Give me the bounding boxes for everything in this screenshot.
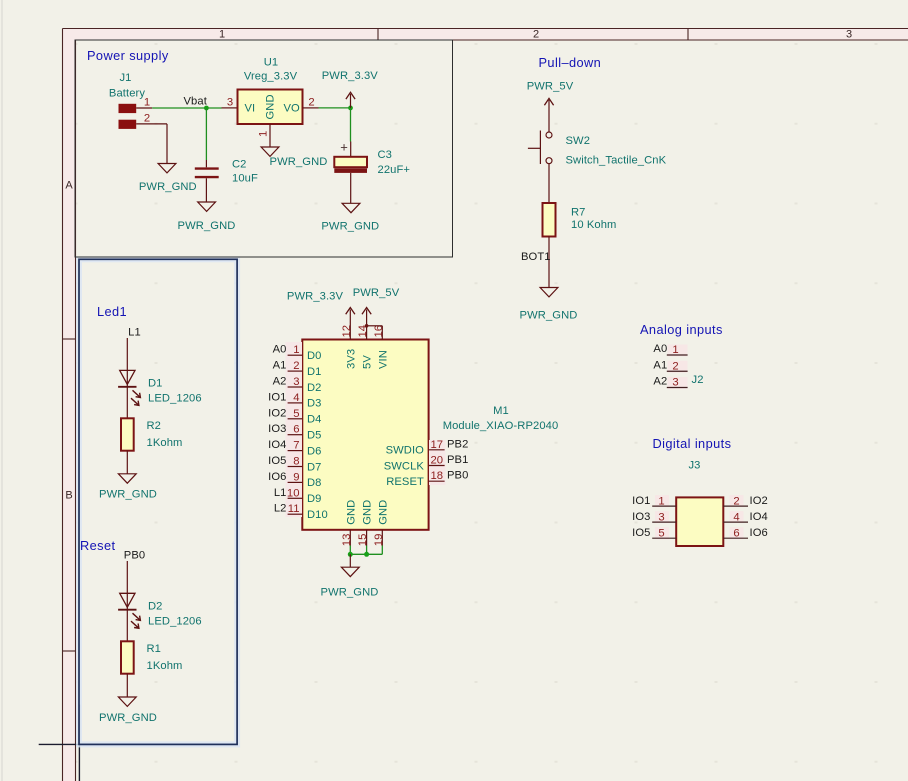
svg-text:D4: D4 [307, 414, 322, 426]
svg-text:IO5: IO5 [268, 455, 286, 467]
svg-text:SWDIO: SWDIO [386, 445, 425, 457]
svg-text:LED_1206: LED_1206 [148, 392, 202, 404]
svg-text:J2: J2 [692, 374, 704, 386]
svg-text:3: 3 [293, 376, 299, 388]
svg-text:D7: D7 [307, 461, 322, 473]
svg-text:3V3: 3V3 [345, 349, 357, 369]
svg-text:M1: M1 [493, 405, 509, 417]
svg-text:GND: GND [345, 500, 357, 525]
svg-text:D10: D10 [307, 509, 328, 521]
svg-text:3: 3 [846, 29, 852, 41]
svg-text:3: 3 [227, 97, 233, 109]
svg-text:+: + [340, 140, 348, 155]
svg-text:1: 1 [258, 131, 270, 137]
svg-text:A0: A0 [653, 343, 667, 355]
svg-text:A: A [65, 180, 73, 192]
svg-text:PWR_GND: PWR_GND [321, 587, 379, 599]
svg-text:L1: L1 [274, 487, 287, 499]
svg-text:2: 2 [533, 29, 539, 41]
svg-text:8: 8 [293, 456, 299, 468]
svg-text:IO2: IO2 [750, 495, 768, 507]
svg-text:RESET: RESET [386, 476, 424, 488]
svg-text:C3: C3 [378, 149, 393, 161]
svg-text:16: 16 [373, 325, 385, 338]
svg-text:SWCLK: SWCLK [384, 460, 425, 472]
svg-text:Vbat: Vbat [184, 96, 208, 108]
svg-text:U1: U1 [264, 57, 279, 69]
svg-text:2: 2 [144, 113, 150, 125]
svg-text:Analog inputs: Analog inputs [640, 322, 723, 337]
svg-text:D5: D5 [307, 430, 322, 442]
svg-text:2: 2 [308, 97, 314, 109]
svg-text:IO4: IO4 [268, 439, 286, 451]
svg-text:PB2: PB2 [447, 438, 468, 450]
svg-text:2: 2 [672, 360, 678, 372]
svg-text:A2: A2 [653, 376, 667, 388]
svg-text:PWR_5V: PWR_5V [353, 287, 400, 299]
svg-text:22uF+: 22uF+ [378, 164, 411, 176]
svg-text:5: 5 [658, 528, 664, 540]
svg-text:10: 10 [287, 487, 300, 499]
svg-text:SW2: SW2 [566, 135, 591, 147]
svg-text:1: 1 [219, 29, 225, 41]
svg-text:PWR_3.3V: PWR_3.3V [322, 70, 379, 82]
svg-text:1Kohm: 1Kohm [147, 437, 183, 449]
svg-text:D3: D3 [307, 398, 322, 410]
svg-text:1Kohm: 1Kohm [147, 660, 183, 672]
svg-text:GND: GND [362, 500, 374, 525]
svg-text:Power supply: Power supply [87, 48, 169, 63]
svg-text:PWR_GND: PWR_GND [99, 712, 157, 724]
svg-text:Vreg_3.3V: Vreg_3.3V [244, 71, 298, 83]
svg-text:VIN: VIN [377, 350, 389, 369]
svg-text:R1: R1 [147, 643, 162, 655]
svg-text:IO3: IO3 [268, 423, 286, 435]
svg-text:D8: D8 [307, 477, 322, 489]
svg-text:IO6: IO6 [750, 527, 768, 539]
svg-text:Battery: Battery [109, 88, 145, 100]
svg-text:1: 1 [672, 344, 678, 356]
svg-text:BOT1: BOT1 [521, 251, 551, 263]
svg-text:IO4: IO4 [750, 511, 768, 523]
svg-text:PWR_GND: PWR_GND [178, 220, 236, 232]
svg-text:PWR_3.3V: PWR_3.3V [287, 291, 344, 303]
svg-text:A1: A1 [273, 360, 287, 372]
svg-text:A0: A0 [273, 344, 287, 356]
svg-text:4: 4 [293, 392, 299, 404]
svg-text:D2: D2 [307, 382, 322, 394]
svg-text:LED_1206: LED_1206 [148, 615, 202, 627]
svg-text:D6: D6 [307, 445, 322, 457]
svg-text:5V: 5V [362, 355, 374, 369]
svg-text:2: 2 [293, 360, 299, 372]
svg-text:4: 4 [733, 512, 739, 524]
svg-text:IO1: IO1 [632, 495, 650, 507]
svg-text:Switch_Tactile_CnK: Switch_Tactile_CnK [566, 155, 667, 167]
svg-text:9: 9 [293, 471, 299, 483]
svg-text:D1: D1 [148, 377, 163, 389]
svg-text:R2: R2 [147, 420, 162, 432]
svg-text:2: 2 [733, 496, 739, 508]
svg-text:5: 5 [293, 408, 299, 420]
svg-text:PWR_GND: PWR_GND [99, 489, 157, 501]
svg-text:J1: J1 [119, 72, 131, 84]
svg-text:L2: L2 [274, 503, 287, 515]
svg-text:17: 17 [431, 439, 444, 451]
svg-text:18: 18 [431, 470, 444, 482]
svg-text:6: 6 [293, 424, 299, 436]
svg-text:PWR_GND: PWR_GND [139, 181, 197, 193]
svg-text:15: 15 [357, 534, 369, 547]
svg-text:PWR_GND: PWR_GND [520, 310, 578, 322]
svg-text:Digital inputs: Digital inputs [653, 436, 732, 451]
svg-text:PWR_GND: PWR_GND [321, 221, 379, 233]
svg-text:A2: A2 [273, 376, 287, 388]
svg-text:D2: D2 [148, 600, 163, 612]
svg-text:Reset: Reset [80, 538, 115, 553]
svg-text:10 Kohm: 10 Kohm [571, 219, 616, 231]
svg-text:1: 1 [144, 97, 150, 109]
svg-text:PWR_5V: PWR_5V [527, 81, 574, 93]
svg-text:1: 1 [658, 496, 664, 508]
svg-text:A1: A1 [653, 359, 667, 371]
svg-text:20: 20 [431, 455, 444, 467]
svg-text:IO5: IO5 [632, 527, 650, 539]
svg-text:13: 13 [341, 534, 353, 547]
svg-text:D1: D1 [307, 366, 322, 378]
svg-text:6: 6 [733, 528, 739, 540]
svg-text:PWR_GND: PWR_GND [270, 156, 328, 168]
svg-text:IO1: IO1 [268, 391, 286, 403]
svg-text:IO3: IO3 [632, 511, 650, 523]
svg-text:PB1: PB1 [447, 454, 468, 466]
svg-text:12: 12 [341, 325, 353, 338]
svg-text:IO2: IO2 [268, 407, 286, 419]
svg-text:Module_XIAO-RP2040: Module_XIAO-RP2040 [443, 420, 559, 432]
svg-text:VO: VO [284, 103, 301, 115]
svg-text:D9: D9 [307, 493, 322, 505]
svg-text:VI: VI [245, 103, 256, 115]
svg-text:GND: GND [377, 500, 389, 525]
svg-text:D0: D0 [307, 350, 322, 362]
svg-text:IO6: IO6 [268, 471, 286, 483]
svg-text:19: 19 [373, 534, 385, 547]
svg-text:Led1: Led1 [97, 304, 127, 319]
svg-text:Pull–down: Pull–down [539, 55, 602, 70]
svg-text:7: 7 [293, 440, 299, 452]
svg-text:10uF: 10uF [232, 173, 258, 185]
svg-text:B: B [65, 490, 72, 502]
svg-text:1: 1 [293, 344, 299, 356]
svg-text:GND: GND [265, 94, 277, 119]
svg-text:3: 3 [658, 512, 664, 524]
svg-text:3: 3 [672, 377, 678, 389]
svg-text:PB0: PB0 [447, 470, 468, 482]
svg-text:R7: R7 [571, 207, 586, 219]
svg-text:L1: L1 [128, 327, 141, 339]
svg-text:PB0: PB0 [124, 550, 145, 562]
svg-text:11: 11 [288, 503, 300, 515]
svg-text:J3: J3 [688, 460, 700, 472]
svg-text:C2: C2 [232, 159, 247, 171]
